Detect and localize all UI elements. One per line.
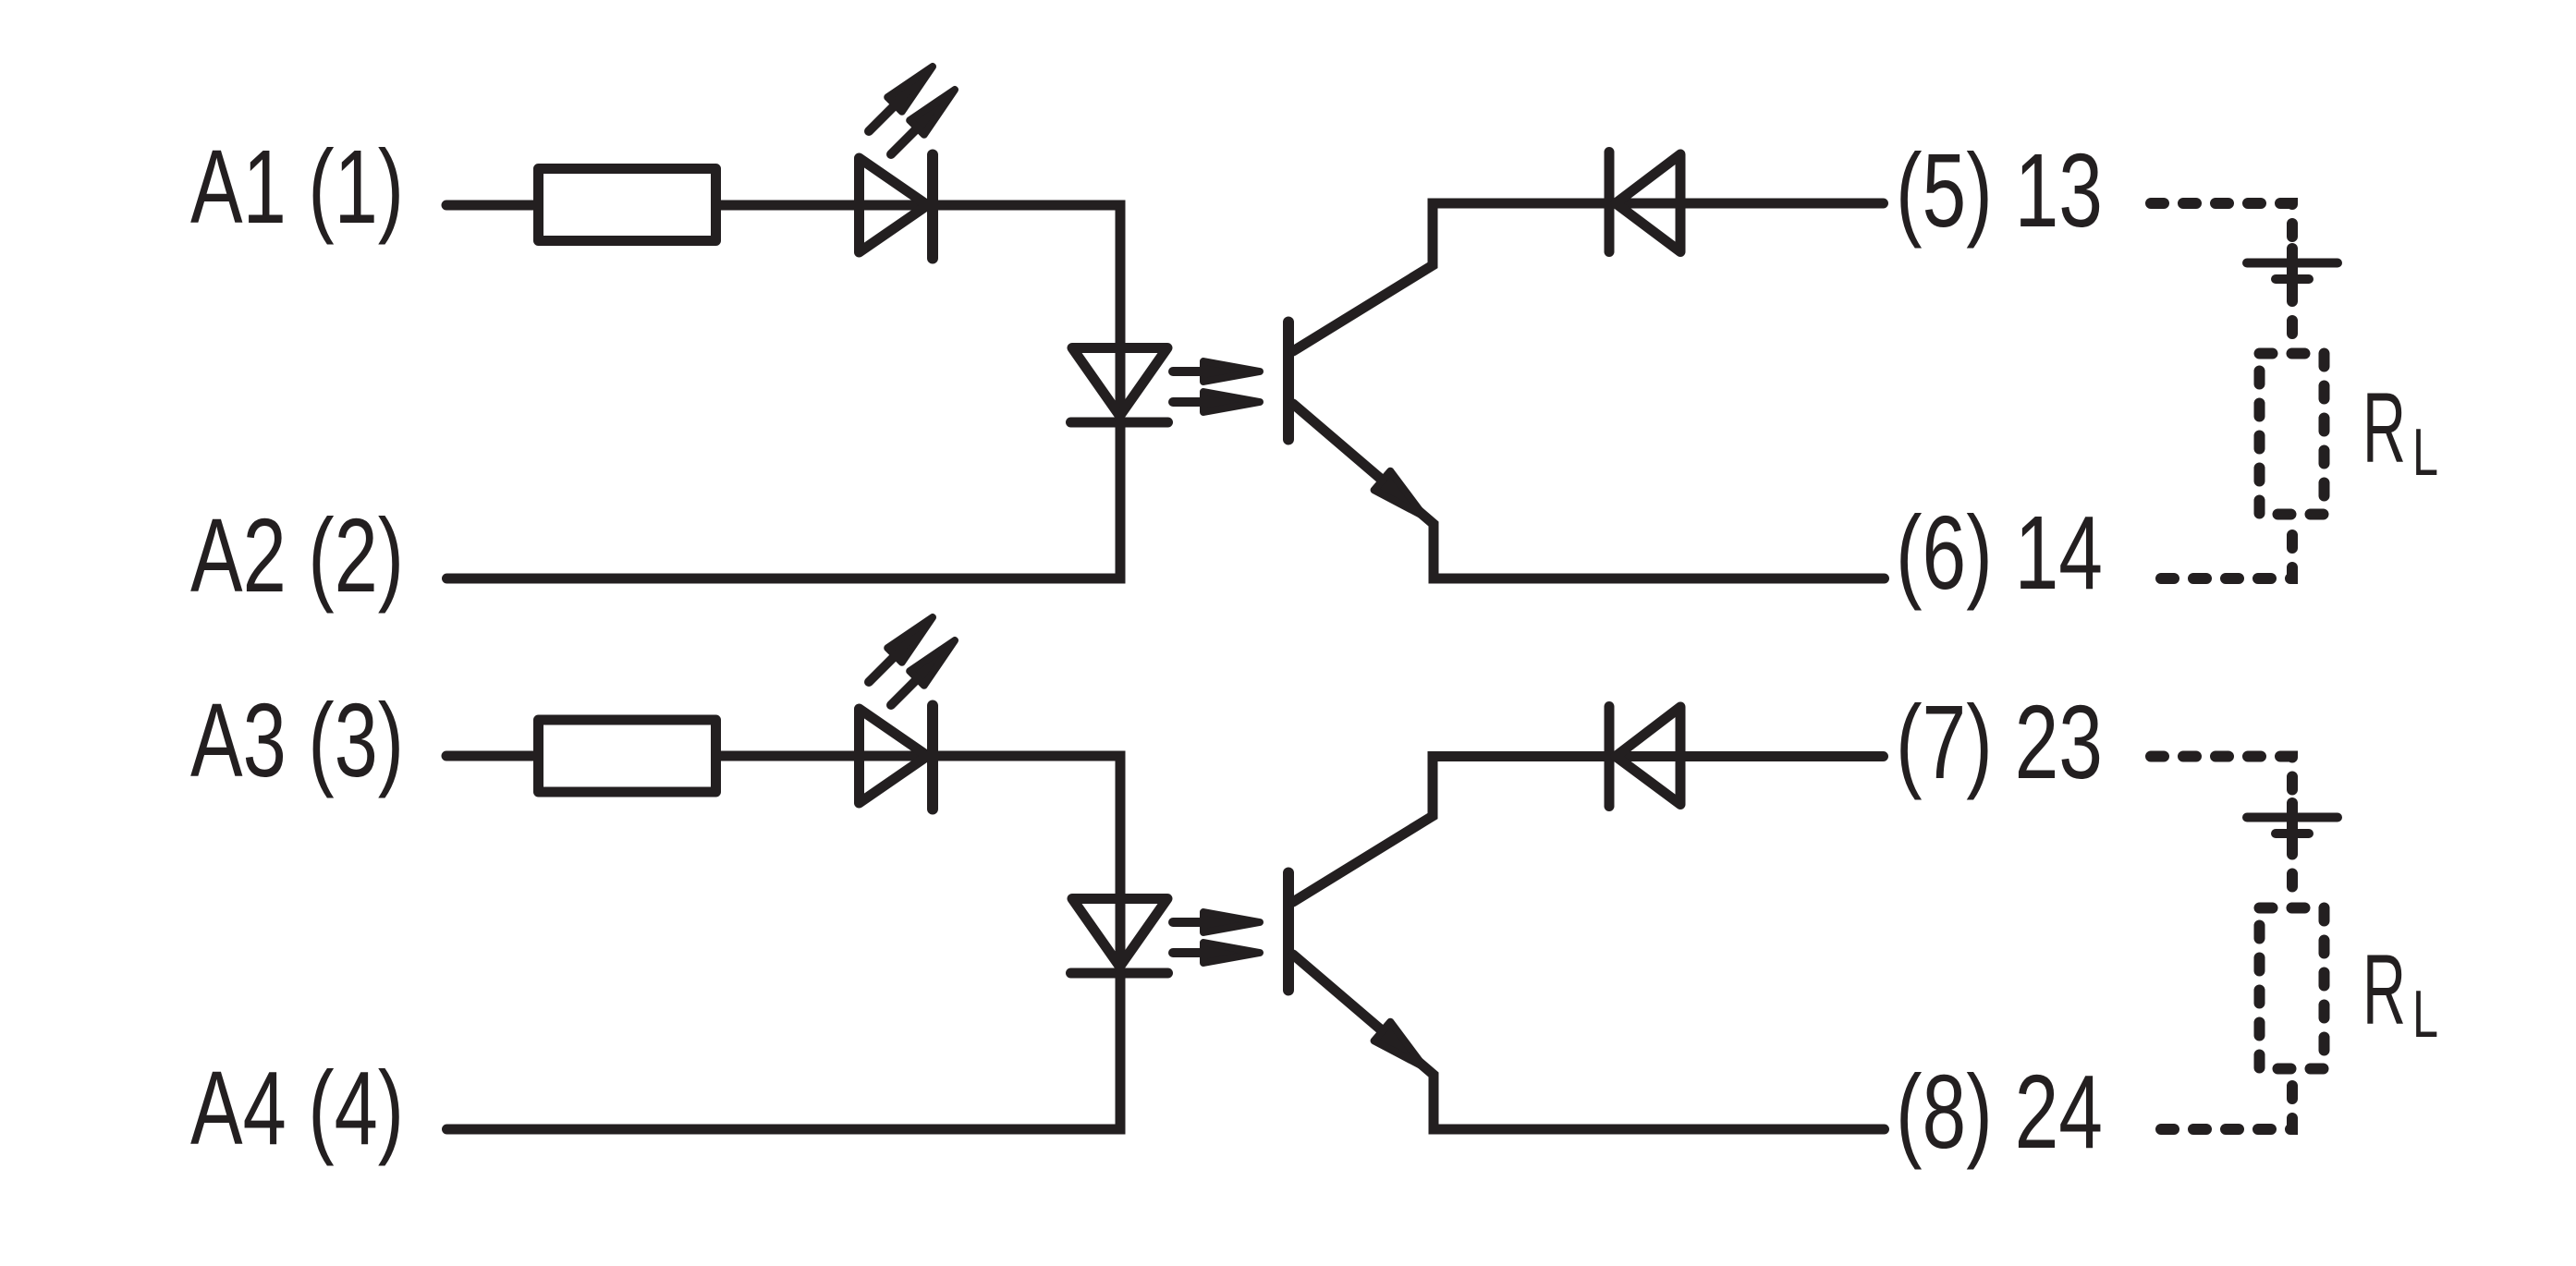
LED D1 emission arrow lower bbox=[891, 90, 955, 154]
LED D1 emission arrow upper bbox=[869, 67, 933, 131]
LED D3 cathode bar bbox=[927, 706, 938, 810]
svg-text:(6) 14: (6) 14 bbox=[1896, 494, 2103, 611]
battery BT1 short plate bbox=[2276, 274, 2309, 284]
battery BT2 long plate bbox=[2247, 813, 2338, 822]
load resistor RL2 dashed box bbox=[2260, 908, 2325, 1069]
svg-text:R: R bbox=[2362, 933, 2406, 1045]
U1 photodiode cathode bar bbox=[1071, 418, 1168, 428]
battery BT2 center link bbox=[2287, 803, 2298, 844]
optocoupler U2 input photodiode triangle bbox=[1072, 899, 1167, 968]
wire R1 through LED D1 to photodiode node corner bbox=[715, 205, 1120, 417]
dashed external wire from (5) 13 to battery BT1 bbox=[2151, 203, 2292, 348]
load resistor RL1 dashed box bbox=[2260, 354, 2325, 515]
dashed external wire from (7) 23 to battery BT2 bbox=[2151, 757, 2292, 904]
LED D3 indicator diode triangle bbox=[860, 709, 928, 803]
dashed external wire from RL2 to (8) 24 bbox=[2161, 1074, 2292, 1129]
label RL channel 1 bbox=[2362, 371, 2438, 490]
label RL channel 2 bbox=[2362, 933, 2438, 1052]
diode D2 cathode bar bbox=[1605, 152, 1615, 252]
battery BT1 center link bbox=[2287, 249, 2298, 289]
svg-text:A1 (1): A1 (1) bbox=[190, 128, 404, 245]
wire R2 through LED D3 to photodiode node corner bbox=[715, 756, 1120, 968]
LED D1 indicator diode triangle bbox=[860, 158, 928, 252]
resistor R1 bbox=[539, 169, 716, 241]
svg-text:(8) 24: (8) 24 bbox=[1896, 1053, 2103, 1170]
Q2 emitter wire with elbow to (8) 24 rail bbox=[1293, 955, 1885, 1129]
optocoupler U1 input photodiode triangle bbox=[1072, 348, 1167, 417]
battery BT1 long plate bbox=[2247, 259, 2338, 268]
svg-text:(7) 23: (7) 23 bbox=[1896, 684, 2103, 800]
LED D3 emission arrow lower bbox=[891, 640, 955, 705]
wire photodiode to A4 rail with corner bbox=[447, 973, 1121, 1129]
Q2 emitter arrowhead bbox=[1374, 1022, 1424, 1067]
svg-text:A3 (3): A3 (3) bbox=[190, 682, 404, 798]
wire photodiode to A2 rail with corner bbox=[447, 422, 1121, 578]
U1 coupling light arrow lower bbox=[1173, 392, 1260, 412]
svg-text:A2 (2): A2 (2) bbox=[190, 497, 404, 614]
battery BT2 short plate bbox=[2276, 829, 2309, 838]
transistor Q1 base bar bbox=[1283, 323, 1294, 440]
LED D3 emission arrow upper bbox=[869, 617, 933, 682]
wire A3 input stub bbox=[446, 751, 538, 761]
LED D1 cathode bar bbox=[927, 155, 938, 259]
svg-text:L: L bbox=[2412, 416, 2438, 490]
U2 coupling light arrow lower bbox=[1173, 943, 1260, 963]
transistor Q2 base bar bbox=[1283, 873, 1294, 991]
Q2 collector wire through diode D4 to terminal (7) 23 bbox=[1293, 757, 1884, 903]
Q1 emitter wire with elbow to (6) 14 rail bbox=[1293, 404, 1885, 578]
dashed external wire from RL1 to (6) 14 bbox=[2161, 519, 2292, 578]
Q1 collector wire through diode D2 to terminal (5) 13 bbox=[1293, 203, 1884, 351]
svg-text:R: R bbox=[2362, 371, 2406, 483]
diode D2 triangle bbox=[1616, 154, 1680, 252]
Q1 emitter arrowhead bbox=[1374, 471, 1424, 517]
resistor R2 bbox=[539, 720, 716, 792]
svg-text:A4 (4): A4 (4) bbox=[190, 1050, 404, 1166]
U2 coupling light arrow upper bbox=[1173, 912, 1260, 932]
U2 photodiode cathode bar bbox=[1071, 968, 1168, 979]
diode D4 cathode bar bbox=[1605, 707, 1615, 807]
wire A1 input stub bbox=[446, 201, 538, 211]
diode D4 triangle bbox=[1616, 707, 1680, 805]
svg-text:(5) 13: (5) 13 bbox=[1896, 132, 2103, 249]
U1 coupling light arrow upper bbox=[1173, 361, 1260, 382]
svg-text:L: L bbox=[2412, 978, 2438, 1052]
